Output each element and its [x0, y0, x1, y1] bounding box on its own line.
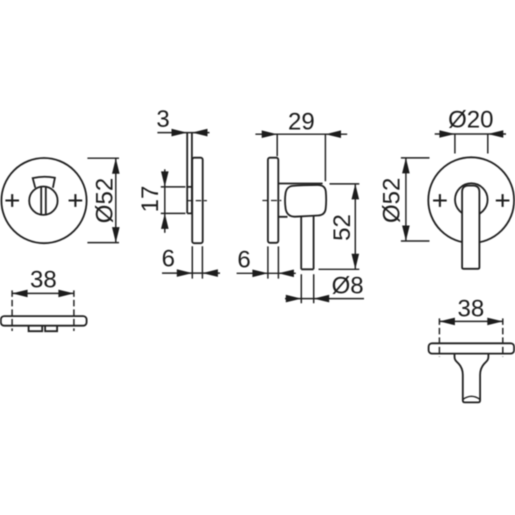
bottom-right profile: rosette plate bar [429, 343, 514, 353]
bottom-left profile: fixing tabs [29, 326, 57, 332]
svg-text:Ø8: Ø8 [332, 272, 364, 299]
dim 17: extension lines [161, 187, 186, 214]
dim Ø52 right: extension lines [401, 158, 430, 241]
middle-left side view: base plate 3mm lines [187, 133, 192, 214]
svg-text:Ø52: Ø52 [92, 178, 119, 223]
dim 38 right: dashed extension lines [439, 318, 502, 356]
right rosette: turn collar circle Ø20 [455, 183, 488, 216]
dim Ø20: extension lines [455, 134, 488, 154]
bottom-right profile: stem end dome line [463, 396, 480, 399]
middle-left: bottom extension lines for 6 [192, 246, 202, 278]
dim 38 right: dimension line [439, 320, 502, 322]
svg-text:52: 52 [329, 214, 356, 241]
dim 38 left: dashed extension lines [12, 290, 74, 331]
dim 29: arrowheads [262, 130, 341, 138]
right rosette: left screw cross [433, 194, 447, 207]
left rosette: emergency-release turn circle [29, 187, 57, 215]
middle-right: spindle stem Ø8 [301, 216, 313, 269]
dim 52: arrowheads [352, 184, 360, 269]
left rosette: left screw cross [5, 194, 19, 207]
dim 29: dimension line [255, 133, 347, 135]
dim Ø52 left: dimension line [115, 158, 117, 242]
svg-text:6: 6 [237, 246, 250, 273]
dim 38 left: dimension line [12, 292, 74, 294]
svg-text:Ø52: Ø52 [378, 178, 405, 223]
dim 17: arrowheads [161, 171, 169, 229]
dim Ø52 right: arrowheads [402, 158, 410, 241]
dim 38 left: arrowheads [12, 290, 74, 298]
dim Ø8: arrowheads [286, 295, 329, 303]
svg-text:Ø20: Ø20 [448, 107, 493, 134]
middle-right: collar cylinder lines [278, 184, 322, 217]
dim 6 left: dimension line [162, 272, 220, 274]
dim 52: extension lines [319, 184, 360, 269]
svg-text:38: 38 [458, 296, 485, 323]
middle-left side view: rosette disc 6mm [192, 158, 203, 244]
dim 17: dimension line [164, 169, 166, 233]
dim 3: dimension line [157, 132, 209, 134]
left rosette front view: outer circle [1, 158, 86, 243]
dim 52: dimension line [354, 184, 356, 269]
dim Ø52 right: dimension line [405, 158, 407, 241]
left rosette: right screw cross [69, 194, 83, 207]
middle-right: bottom extension lines for 6 [268, 246, 279, 278]
dim Ø8: dimension line [285, 298, 364, 300]
middle-left side view: spindle boss edges (17mm) [187, 187, 192, 214]
svg-text:29: 29 [288, 109, 315, 136]
svg-text:3: 3 [156, 106, 169, 133]
left rosette: slot cap tab [33, 177, 55, 188]
middle-right: thumbturn knob body [285, 185, 326, 217]
svg-text:6: 6 [162, 245, 175, 272]
dim 6 middle: arrowheads [252, 270, 294, 278]
right rosette front view: outer circle [428, 157, 514, 243]
dim Ø8: extension lines [301, 274, 313, 303]
dim 29: extension lines [277, 134, 325, 181]
middle-right: dashed centerline [262, 200, 281, 202]
dim Ø52 left: arrowheads [112, 158, 120, 242]
middle-left side view: dashed centerline [188, 200, 207, 202]
bottom-right profile: turn knob stem profile [455, 354, 489, 403]
middle-right side view: rosette disc 6mm [268, 158, 278, 243]
bottom-left profile: rosette plate bar [1, 316, 87, 326]
dim Ø20: arrowheads [439, 130, 503, 138]
dim 6 left: arrowheads [177, 269, 218, 277]
dim Ø20: dimension line [435, 133, 506, 135]
right rosette: right screw cross [496, 194, 510, 207]
svg-text:17: 17 [137, 186, 164, 213]
left rosette: coin slot lines [41, 187, 46, 214]
dim Ø52 left: extension lines [87, 158, 119, 242]
dim 3: arrowheads [172, 129, 208, 137]
right rosette: thumbturn grip bar [462, 186, 479, 269]
svg-text:38: 38 [30, 267, 57, 294]
dim 38 right: arrowheads [439, 318, 502, 326]
dim 6 middle: dimension line [237, 272, 296, 274]
